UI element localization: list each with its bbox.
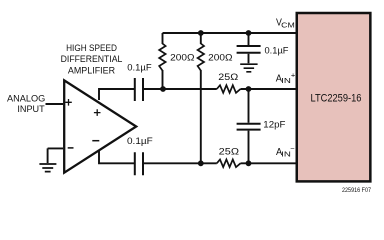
- svg-text:25Ω: 25Ω: [219, 146, 239, 157]
- svg-text:LTC2259-16: LTC2259-16: [311, 93, 362, 105]
- svg-text:−: −: [290, 144, 295, 153]
- svg-text:12pF: 12pF: [263, 119, 285, 130]
- svg-text:200Ω: 200Ω: [170, 52, 194, 63]
- svg-text:ANALOG: ANALOG: [7, 94, 45, 104]
- svg-text:CM: CM: [281, 20, 295, 29]
- svg-text:25Ω: 25Ω: [218, 72, 238, 83]
- svg-text:DIFFERENTIAL: DIFFERENTIAL: [61, 54, 123, 64]
- svg-text:HIGH SPEED: HIGH SPEED: [66, 43, 117, 53]
- svg-text:0.1µF: 0.1µF: [265, 45, 289, 56]
- svg-text:IN: IN: [281, 76, 291, 85]
- svg-text:0.1µF: 0.1µF: [127, 136, 153, 147]
- svg-text:+: +: [291, 70, 296, 79]
- svg-text:0.1µF: 0.1µF: [127, 62, 151, 73]
- svg-text:225916 F07: 225916 F07: [342, 187, 371, 194]
- svg-text:AMPLIFIER: AMPLIFIER: [68, 66, 116, 76]
- svg-text:INPUT: INPUT: [17, 104, 45, 114]
- svg-text:200Ω: 200Ω: [208, 52, 232, 63]
